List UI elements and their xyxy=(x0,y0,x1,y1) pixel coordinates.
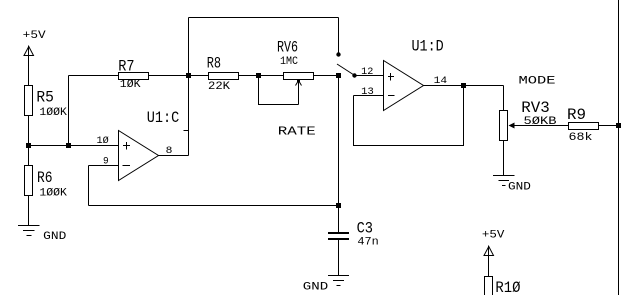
node junction RV6 wiper loop xyxy=(256,73,261,78)
svg-text:R1Ø: R1Ø xyxy=(495,279,520,295)
switch contact top xyxy=(336,52,340,56)
svg-text:R7: R7 xyxy=(118,58,134,76)
wire right bus vertical xyxy=(618,0,620,295)
wire rail to R7 left xyxy=(69,75,119,77)
pin tick on output branch xyxy=(184,130,189,132)
resistor R5 xyxy=(25,86,33,116)
svg-text:+5V: +5V xyxy=(482,230,505,242)
wire R7 to R8 xyxy=(149,75,209,77)
node junction switch common xyxy=(336,73,341,78)
svg-text:68k: 68k xyxy=(569,132,593,144)
svg-text:R5: R5 xyxy=(36,89,54,107)
wire branch up to R7 rail xyxy=(68,76,70,146)
wire bottom rail xyxy=(89,205,339,207)
svg-text:R8: R8 xyxy=(207,55,221,73)
svg-text:GND: GND xyxy=(508,182,531,194)
svg-text:R6: R6 xyxy=(37,169,53,187)
svg-text:1Ø: 1Ø xyxy=(97,135,109,147)
potentiometer RV3 xyxy=(500,111,569,141)
op-amp U1:C xyxy=(119,131,159,181)
svg-text:1ØØK: 1ØØK xyxy=(39,107,67,119)
ground symbol left xyxy=(18,226,67,244)
resistor R6 xyxy=(25,166,33,196)
wire U1:C feedback down xyxy=(88,166,90,206)
node junction right bus xyxy=(616,123,621,128)
svg-text:U1:D: U1:D xyxy=(412,38,444,56)
wire output down to RV3 xyxy=(503,86,505,111)
wire R6 to ground xyxy=(28,196,30,226)
svg-text:1MC: 1MC xyxy=(280,56,298,68)
svg-text:12: 12 xyxy=(361,67,373,78)
potentiometer RV6 xyxy=(259,73,314,105)
power +5V symbol left xyxy=(23,30,46,56)
wire R9 to right bus xyxy=(599,125,619,127)
svg-text:MODE: MODE xyxy=(519,76,557,88)
op-amp U1:D xyxy=(384,61,424,111)
svg-text:C3: C3 xyxy=(357,220,373,238)
wire +5V to R5 xyxy=(28,46,30,86)
svg-text:RATE: RATE xyxy=(278,125,316,139)
wire RV3 to ground xyxy=(503,141,505,176)
wire R5 to R6 xyxy=(28,116,30,166)
node junction rail / U1:C output branch xyxy=(186,73,191,78)
resistor R7 xyxy=(119,73,149,80)
svg-text:1ØK: 1ØK xyxy=(120,79,141,91)
wire U1:C output pin 8 xyxy=(159,155,189,157)
resistor R10 xyxy=(485,277,493,295)
capacitor C3 xyxy=(328,206,349,276)
wire top rail down to switch xyxy=(338,18,340,53)
svg-text:1ØØK: 1ØØK xyxy=(39,188,67,200)
wire +5V to R10 xyxy=(488,246,490,277)
svg-text:47n: 47n xyxy=(357,237,378,249)
wire R8 to RV6 xyxy=(239,75,284,77)
wire U1:C output up to top rail xyxy=(188,18,190,156)
power +5V symbol right xyxy=(482,230,505,256)
svg-text:+5V: +5V xyxy=(23,30,46,42)
node junction R5/R6 divider xyxy=(26,143,31,148)
switch lever xyxy=(337,64,354,75)
ground symbol C3 xyxy=(303,276,349,294)
svg-text:GND: GND xyxy=(303,282,329,294)
wire U1:D pin 13 xyxy=(354,95,384,97)
svg-text:U1:C: U1:C xyxy=(147,109,180,127)
node junction divider to R7 branch xyxy=(66,143,71,148)
ground symbol RV3 xyxy=(493,176,531,194)
wire U1:D feedback loop xyxy=(354,86,464,146)
wire RV6 to switch node xyxy=(314,75,339,77)
wire divider node to U1:C pin 10 xyxy=(29,145,119,147)
wire top rail xyxy=(189,17,339,19)
svg-text:5ØKB: 5ØKB xyxy=(524,116,557,128)
switch contact pole xyxy=(352,73,356,77)
svg-text:22K: 22K xyxy=(208,81,230,93)
node junction bottom rail / C3 xyxy=(336,203,341,208)
svg-text:R9: R9 xyxy=(567,106,586,124)
wire switch pole to U1:D pin 12 xyxy=(355,75,384,77)
svg-text:RV6: RV6 xyxy=(277,39,298,57)
wire U1:C pin 9 xyxy=(89,165,119,167)
svg-text:GND: GND xyxy=(43,231,67,243)
svg-text:13: 13 xyxy=(361,87,374,98)
wire U1:D output pin 14 xyxy=(424,85,504,87)
node junction output/feedback xyxy=(461,83,466,88)
wire switch node down to bottom rail xyxy=(338,76,340,206)
svg-text:RV3: RV3 xyxy=(521,99,550,117)
resistor R9 xyxy=(569,123,599,130)
resistor R8 xyxy=(209,73,239,80)
